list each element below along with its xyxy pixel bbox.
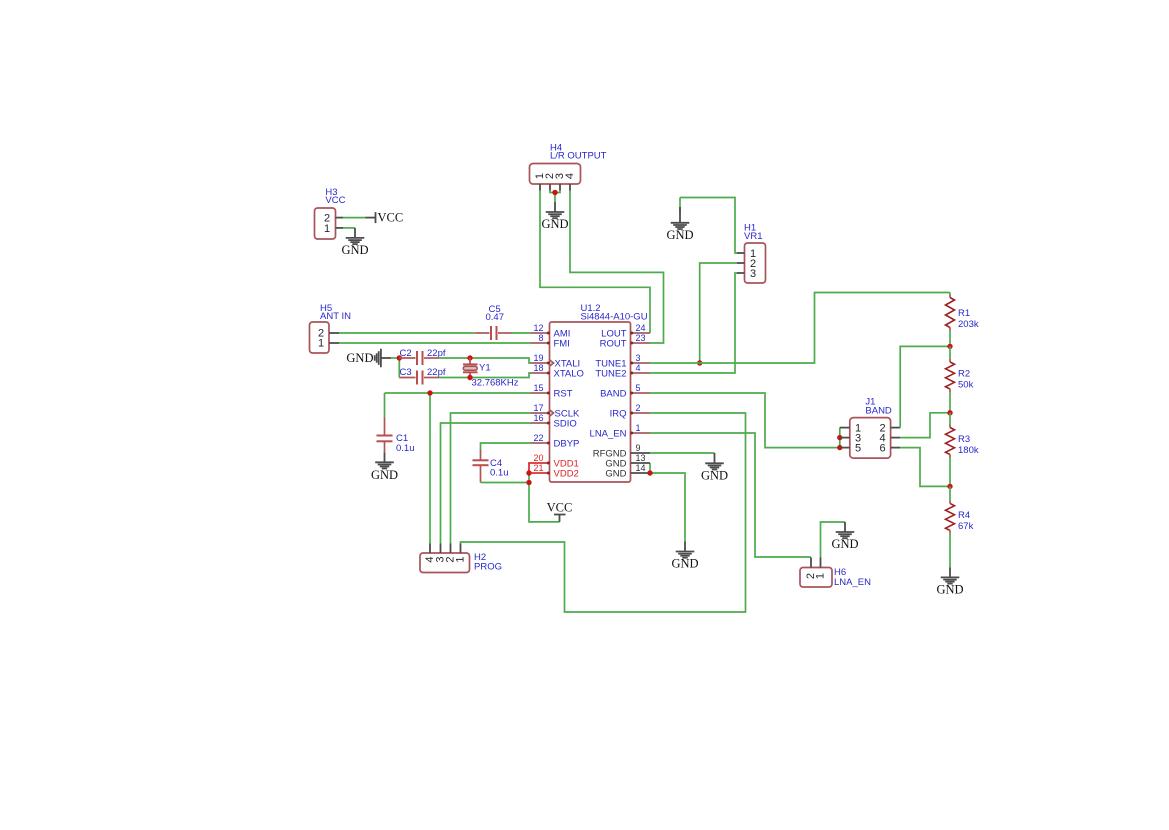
- svg-text:50k: 50k: [958, 380, 974, 391]
- svg-text:BAND: BAND: [865, 405, 892, 416]
- resistor R1 203k: [946, 293, 979, 347]
- wire GND to H1 pin1: [680, 198, 737, 254]
- connector J1 BAND: [840, 397, 900, 458]
- svg-text:19: 19: [533, 353, 543, 363]
- svg-text:67k: 67k: [958, 521, 974, 532]
- ground GND (H3): [341, 228, 368, 257]
- svg-text:VDD2: VDD2: [554, 468, 579, 479]
- connector H6 LNA_EN: [800, 558, 871, 589]
- svg-text:4: 4: [564, 173, 576, 179]
- capacitor C1 0.1u: [377, 418, 415, 455]
- svg-text:5: 5: [855, 443, 861, 455]
- ground GND (near H1): [666, 198, 693, 242]
- svg-text:22: 22: [533, 433, 543, 443]
- svg-text:13: 13: [636, 453, 646, 463]
- wire GND13/GND14 to ground: [650, 463, 685, 542]
- wire RST net: [385, 393, 531, 544]
- wire RFGND to ground: [650, 452, 715, 454]
- svg-text:0.1u: 0.1u: [396, 443, 415, 454]
- resistor R2 50k: [946, 346, 974, 412]
- svg-text:LNA_EN: LNA_EN: [590, 428, 627, 439]
- pin 18 XTALO: [531, 363, 584, 380]
- svg-text:VCC: VCC: [325, 195, 345, 206]
- wire VDD1/VDD2 rail: [529, 463, 560, 522]
- svg-text:IRQ: IRQ: [610, 408, 627, 419]
- wire C5 to AMI: [512, 332, 531, 334]
- wire DBYP to C4: [481, 443, 531, 451]
- pin 13 GND: [605, 453, 650, 470]
- svg-text:R1: R1: [958, 308, 970, 319]
- pin 8 FMI: [531, 333, 570, 350]
- svg-text:14: 14: [636, 463, 646, 473]
- svg-text:R4: R4: [958, 510, 970, 521]
- pin 17 SCLK: [531, 403, 580, 420]
- svg-text:BAND: BAND: [600, 388, 627, 399]
- wire H1 pin2 to TUNE1: [700, 263, 737, 363]
- svg-text:C2: C2: [400, 348, 412, 359]
- svg-text:6: 6: [880, 443, 886, 455]
- power VCC (VDD): [547, 500, 573, 522]
- svg-text:3: 3: [750, 268, 756, 280]
- pin 19 XTALI: [531, 353, 581, 370]
- wire LNA_EN to H6 pin2: [650, 433, 811, 557]
- pin 22 DBYP: [531, 433, 580, 450]
- svg-text:PROG: PROG: [474, 562, 502, 573]
- svg-text:0.1u: 0.1u: [490, 468, 509, 479]
- wire C4 to VDD rail: [481, 482, 530, 484]
- resistor R4 67k: [946, 486, 974, 567]
- svg-text:VCC: VCC: [547, 500, 573, 514]
- svg-text:1: 1: [318, 337, 324, 349]
- svg-text:12: 12: [533, 323, 543, 333]
- junction RST/H2.4: [427, 390, 432, 395]
- svg-text:Si4844-A10-GU: Si4844-A10-GU: [581, 312, 648, 323]
- connector H5 ANT IN: [310, 303, 352, 353]
- svg-text:GND: GND: [341, 243, 368, 257]
- junction R2/R3: [947, 410, 952, 415]
- svg-text:ANT IN: ANT IN: [320, 311, 351, 322]
- resistor R3 180k: [946, 413, 979, 487]
- pin 9 RFGND: [593, 443, 650, 460]
- svg-text:GND: GND: [701, 468, 728, 482]
- junction R3/R4: [947, 484, 952, 489]
- capacitor C3 22pf: [399, 367, 446, 385]
- svg-text:18: 18: [533, 363, 543, 373]
- wire H4 pin4 to ROUT: [570, 191, 664, 344]
- ground GND (R4): [936, 567, 963, 596]
- junction R1/R2: [947, 344, 952, 349]
- wire gnd rail to C2/C3: [391, 357, 399, 359]
- svg-text:Y1: Y1: [479, 362, 491, 373]
- svg-text:8: 8: [538, 333, 543, 343]
- svg-text:GND: GND: [666, 228, 693, 242]
- connector H2 PROG: [420, 544, 502, 573]
- svg-text:1: 1: [324, 223, 330, 235]
- wire J1 pin6 to R3/R4 junction: [900, 448, 950, 487]
- pin 24 LOUT: [601, 323, 650, 340]
- svg-text:3: 3: [636, 353, 641, 363]
- svg-text:XTALO: XTALO: [554, 368, 584, 379]
- pin 15 RST: [531, 383, 573, 400]
- wire J1 pins 1/3/5 tie: [839, 428, 841, 448]
- wire H2 pin1 to IRQ: [461, 413, 746, 612]
- svg-text:GND: GND: [346, 351, 373, 365]
- svg-text:20: 20: [533, 453, 543, 463]
- svg-text:203k: 203k: [958, 319, 979, 330]
- crystal Y1 32.768KHz: [463, 355, 519, 388]
- pin 12 AMI: [531, 323, 571, 340]
- pin 2 IRQ: [610, 403, 650, 420]
- svg-text:RST: RST: [554, 388, 573, 399]
- svg-text:24: 24: [636, 323, 646, 333]
- svg-text:R2: R2: [958, 369, 970, 380]
- junction C4/VCC: [526, 480, 531, 485]
- ground GND (H6): [831, 522, 858, 551]
- ground GND (pin14): [671, 542, 698, 571]
- svg-text:GND: GND: [936, 582, 963, 596]
- capacitor C4 0.1u: [473, 450, 509, 483]
- wire BAND to J1: [650, 393, 840, 448]
- svg-text:180k: 180k: [958, 445, 979, 456]
- svg-text:VR1: VR1: [744, 231, 762, 242]
- pin 16 SDIO: [531, 413, 577, 430]
- svg-text:2: 2: [636, 403, 641, 413]
- wire H5 pin2 to C5: [339, 332, 475, 334]
- capacitor C2 22pf: [399, 348, 446, 365]
- wire H5 pin1 to FMI: [339, 342, 531, 344]
- wire TUNE1 to R1/R2 junction: [650, 293, 950, 364]
- svg-text:32.768KHz: 32.768KHz: [472, 377, 519, 388]
- svg-text:FMI: FMI: [554, 338, 570, 349]
- svg-text:SDIO: SDIO: [554, 418, 577, 429]
- ground GND (crystal): [346, 349, 391, 368]
- power VCC (H3): [366, 211, 404, 225]
- svg-text:R3: R3: [958, 434, 970, 445]
- wire H3 pin1 to ground: [343, 227, 355, 229]
- wire C3 to XTALO: [439, 373, 531, 378]
- pin 14 GND: [605, 463, 648, 480]
- svg-text:1: 1: [636, 423, 641, 433]
- svg-text:GND: GND: [371, 468, 398, 482]
- svg-text:0.47: 0.47: [486, 312, 505, 323]
- wire H4 pins2+3 to ground: [550, 191, 560, 193]
- pin 3 TUNE1: [595, 353, 650, 370]
- wire H4 pin1 to LOUT: [540, 191, 650, 334]
- op-amp U1.2 Si4844-A10-GU body: [550, 303, 648, 482]
- svg-text:1: 1: [815, 573, 827, 579]
- pin 1 LNA_EN: [590, 423, 650, 440]
- pin 20 VDD1: [531, 453, 579, 470]
- ground GND (H4): [541, 202, 568, 231]
- svg-text:23: 23: [636, 333, 646, 343]
- connector H1 VR1: [737, 223, 766, 284]
- connector H3: [315, 187, 346, 239]
- junction gnd rail: [397, 355, 402, 360]
- svg-text:TUNE2: TUNE2: [595, 368, 626, 379]
- svg-text:LNA_EN: LNA_EN: [834, 577, 871, 588]
- ground GND (C1): [371, 452, 398, 482]
- svg-text:L/R OUTPUT: L/R OUTPUT: [550, 151, 607, 162]
- svg-text:15: 15: [533, 383, 543, 393]
- capacitor C5 0.47: [475, 304, 511, 340]
- wire H3 pin2 to VCC: [343, 217, 366, 219]
- junction J1 pin5: [837, 445, 842, 450]
- junction VDD2: [526, 470, 531, 475]
- svg-text:9: 9: [636, 443, 641, 453]
- wire J1 pin2 to R1/R2 junction: [900, 346, 950, 427]
- wire C2 to XTALI: [439, 358, 531, 363]
- svg-text:DBYP: DBYP: [554, 438, 580, 449]
- svg-text:16: 16: [533, 413, 543, 423]
- svg-text:5: 5: [636, 383, 641, 393]
- pin 23 ROUT: [600, 333, 650, 350]
- pin 21 VDD2: [531, 463, 579, 480]
- wire H1 pin3 to TUNE2: [650, 273, 737, 373]
- wire H6 pin1 to ground: [821, 522, 846, 558]
- connector H4: [530, 143, 607, 191]
- svg-text:17: 17: [533, 403, 543, 413]
- svg-text:GND: GND: [671, 557, 698, 571]
- svg-text:GND: GND: [541, 217, 568, 231]
- svg-text:22pf: 22pf: [427, 367, 446, 378]
- svg-text:GND: GND: [831, 537, 858, 551]
- pin 5 BAND: [600, 383, 650, 400]
- junction GND14: [647, 470, 652, 475]
- junction H4 gnd: [552, 190, 557, 195]
- wire SCLK to H2 pin2: [451, 413, 531, 544]
- svg-text:VCC: VCC: [378, 211, 404, 225]
- junction TUNE1/H1: [697, 360, 702, 365]
- svg-text:1: 1: [455, 556, 467, 562]
- svg-text:C3: C3: [400, 367, 412, 378]
- svg-text:ROUT: ROUT: [600, 338, 627, 349]
- svg-text:4: 4: [636, 363, 641, 373]
- pin 4 TUNE2: [595, 363, 650, 380]
- wire J1 pin4 to R2/R3 junction: [900, 413, 950, 438]
- wire SDIO to H2 pin3: [441, 423, 531, 544]
- svg-text:21: 21: [533, 463, 543, 473]
- ground GND (RFGND): [701, 453, 728, 482]
- junction J1 pin3: [837, 435, 842, 440]
- svg-text:GND: GND: [605, 468, 626, 479]
